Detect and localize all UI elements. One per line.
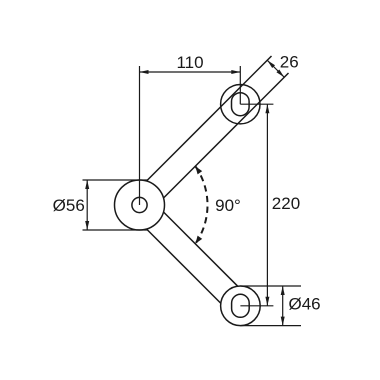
dimension line 220 — [266, 104, 268, 306]
svg-text:110: 110 — [176, 53, 203, 72]
extension line Ø56 bottom — [83, 229, 148, 231]
arrow Ø46 top — [281, 286, 285, 295]
svg-text:Ø56: Ø56 — [53, 196, 85, 215]
dimension line 26 — [267, 60, 284, 77]
slot bottom — [232, 294, 250, 317]
arrow 220 bottom — [265, 297, 269, 306]
arrow Ø56 top — [85, 180, 89, 189]
slot top — [232, 93, 250, 116]
arrow arc top — [195, 166, 202, 174]
arrow arc bottom — [195, 236, 202, 244]
arrow 110 left — [140, 70, 149, 74]
extension line bottom-boss centerline horizontal — [240, 305, 273, 307]
wire arm-top-upper-edge — [147, 56, 272, 181]
arrow Ø46 bottom — [281, 317, 285, 326]
dimension line Ø46 — [282, 286, 284, 326]
extension line top-boss centerline vertical — [239, 66, 241, 104]
hole central — [132, 197, 147, 212]
wire arm-top-lower-edge — [164, 73, 289, 198]
arrow 220 top — [265, 104, 269, 113]
arrow 26 lower — [276, 69, 284, 77]
body top boss — [221, 85, 260, 124]
extension line left (center of Ø56 boss) — [139, 66, 141, 205]
svg-text:26: 26 — [280, 53, 299, 72]
dimension line Ø56 — [86, 180, 88, 230]
extension line Ø46 bottom — [240, 325, 301, 327]
body bottom boss — [221, 286, 261, 326]
body central boss — [115, 180, 165, 230]
svg-text:220: 220 — [272, 194, 300, 213]
extension line top-boss centerline horizontal — [240, 103, 273, 105]
arrow 110 right — [231, 70, 240, 74]
extension line Ø56 top — [83, 179, 148, 181]
dimension line 110 — [140, 71, 241, 73]
arrow 26 upper — [267, 60, 275, 68]
angle arc 90 deg — [195, 166, 207, 244]
svg-text:90°: 90° — [215, 196, 241, 215]
wire arm-bottom-upper-edge — [164, 212, 238, 286]
svg-text:Ø46: Ø46 — [289, 295, 321, 314]
extension line Ø46 top — [240, 285, 301, 287]
arrow Ø56 bottom — [85, 221, 89, 230]
wire arm-bottom-lower-edge — [147, 229, 221, 303]
